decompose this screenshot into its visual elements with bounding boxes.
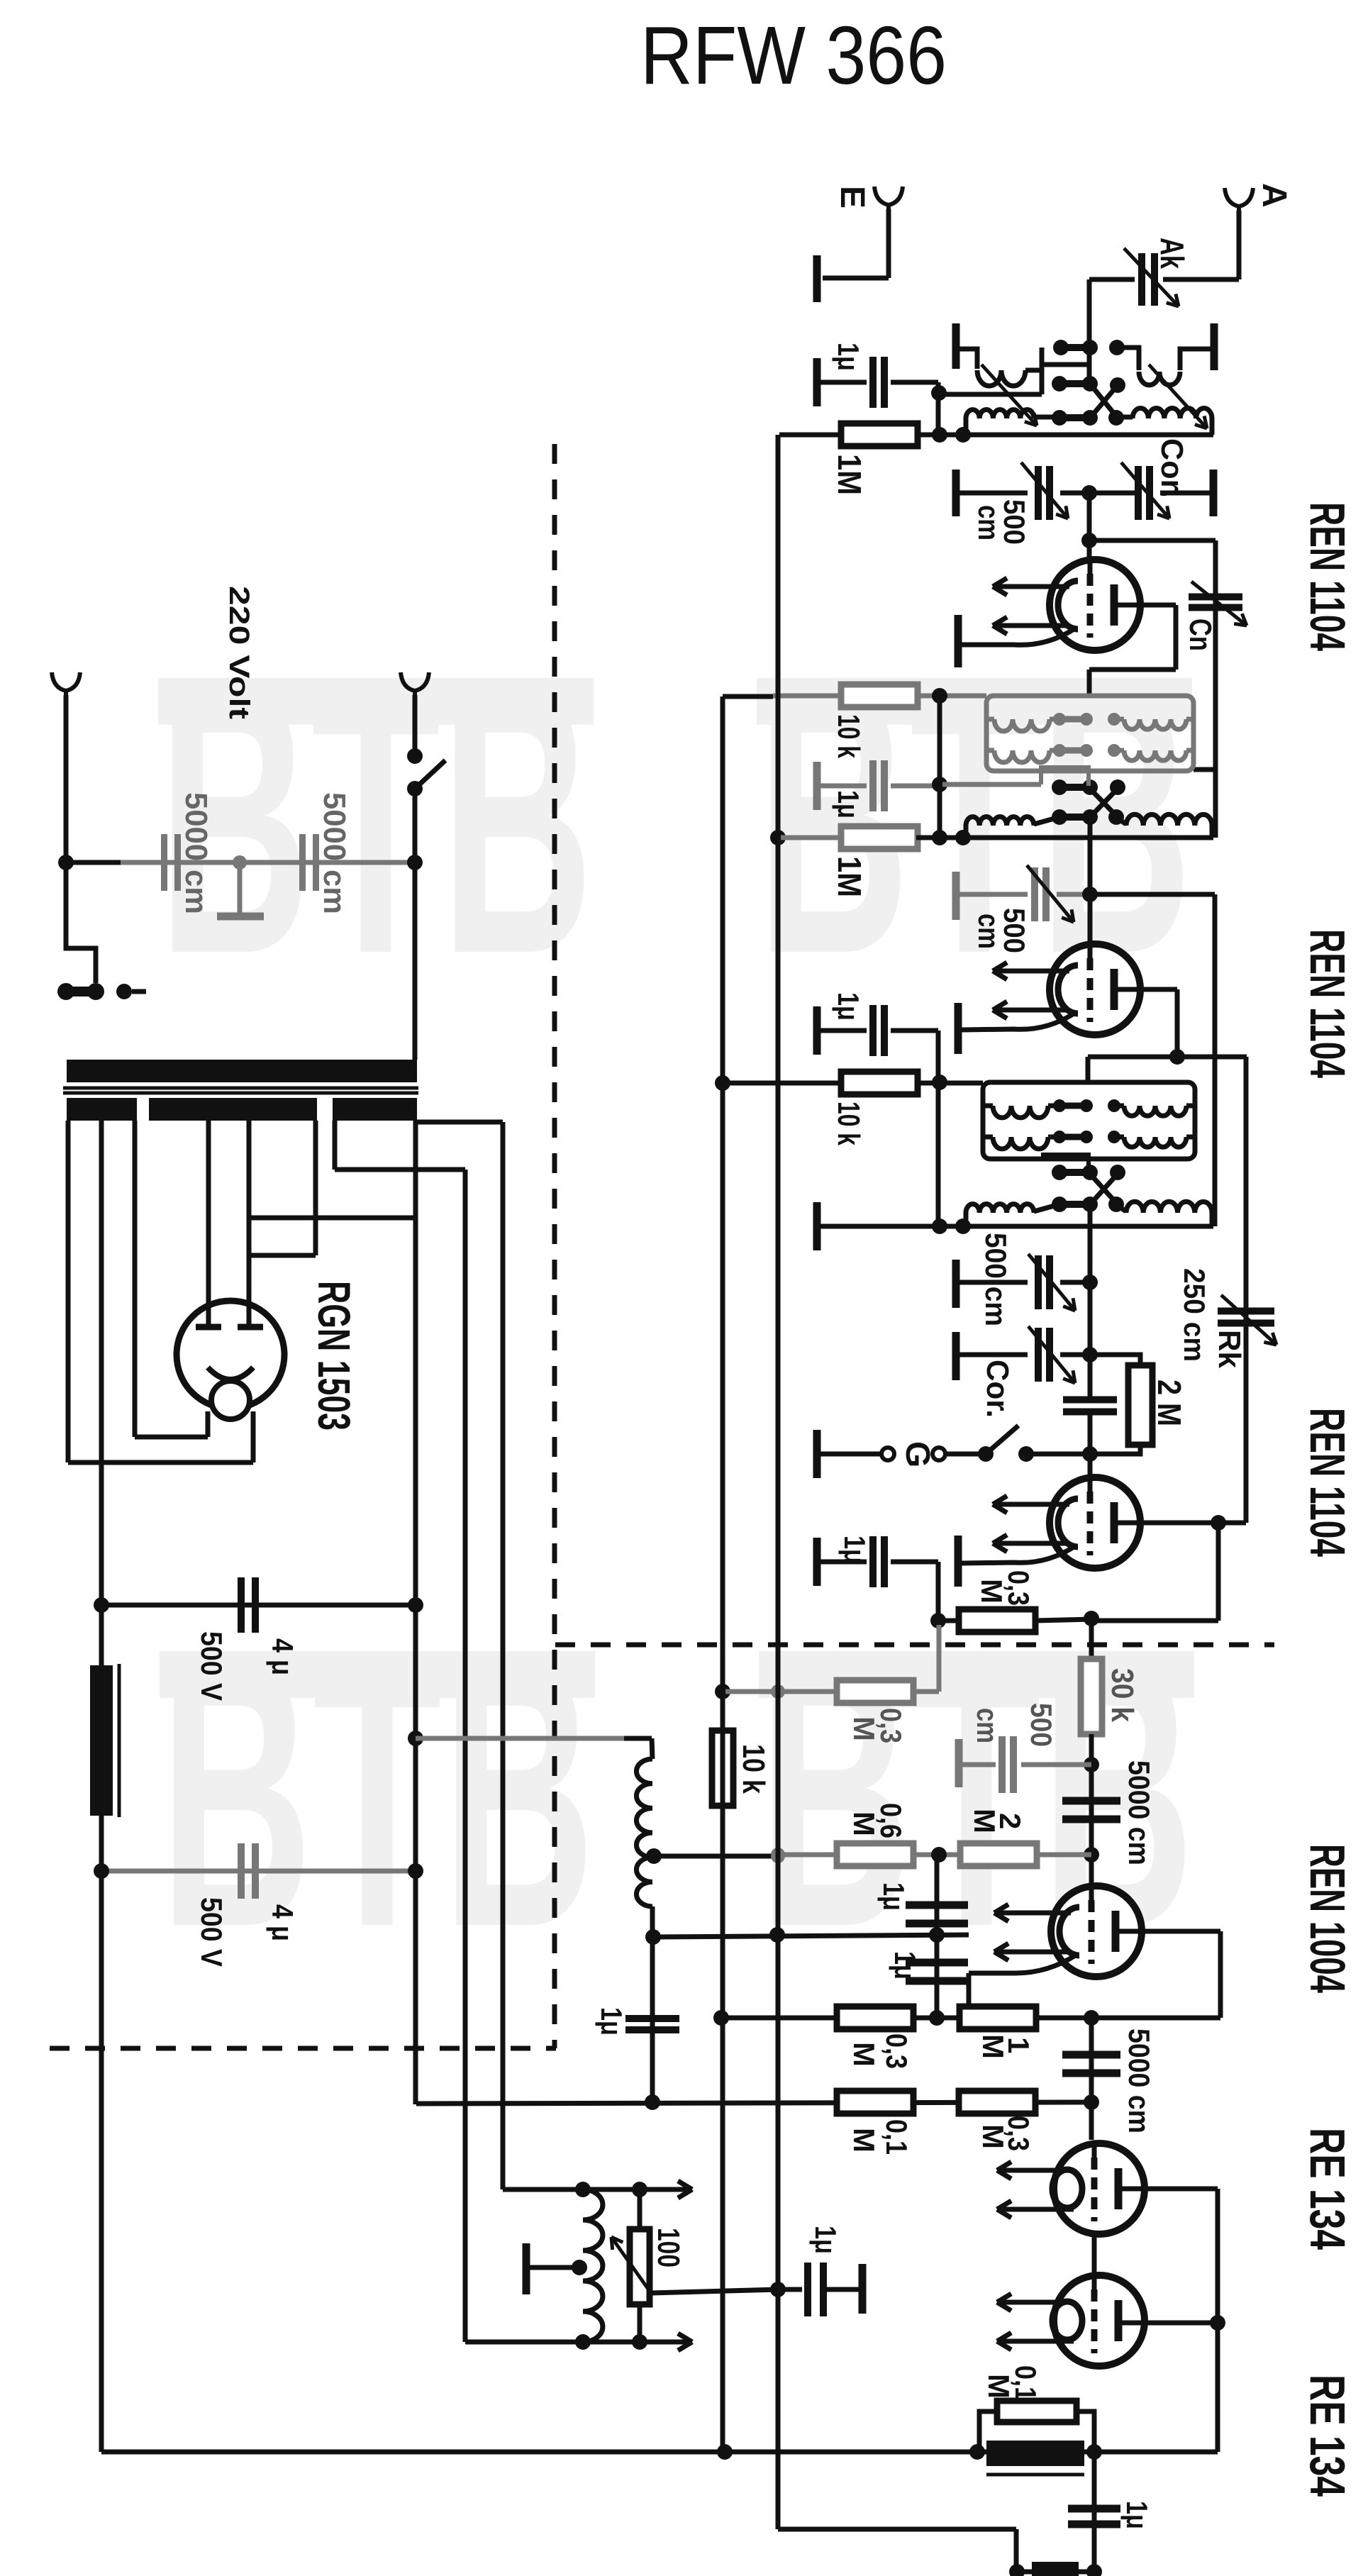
svg-text:1μ: 1μ [809,2226,842,2254]
svg-text:Ak: Ak [1154,238,1191,269]
svg-text:1μ: 1μ [832,343,865,371]
svg-text:1M: 1M [831,856,868,897]
svg-text:1μ: 1μ [877,1882,911,1911]
svg-text:4 μ: 4 μ [266,1638,299,1675]
svg-text:1μ: 1μ [1120,2501,1154,2529]
svg-text:RFW 366: RFW 366 [640,9,947,101]
svg-text:220 Volt: 220 Volt [223,586,255,719]
svg-text:100: 100 [651,2228,686,2267]
svg-text:10 k: 10 k [831,1101,866,1145]
svg-text:cm: cm [971,1708,1004,1743]
svg-text:Cor.: Cor. [980,1360,1015,1418]
svg-text:M: M [847,1716,881,1741]
svg-text:1μ: 1μ [832,992,865,1021]
svg-text:REN 1104: REN 1104 [1300,502,1355,651]
svg-text:E: E [833,186,871,209]
svg-text:5000 cm: 5000 cm [1123,1760,1156,1865]
svg-text:1μ: 1μ [889,1951,922,1980]
svg-text:REN 1104: REN 1104 [1300,1408,1355,1557]
svg-text:M: M [977,2124,1010,2149]
svg-text:RE 134: RE 134 [1300,2375,1355,2497]
svg-text:0,1: 0,1 [880,2119,913,2155]
svg-text:500 V: 500 V [195,1631,228,1701]
svg-text:250 cm: 250 cm [1178,1268,1211,1362]
svg-text:M: M [847,2042,881,2067]
svg-text:RE 134: RE 134 [1300,2128,1355,2250]
svg-text:1μ: 1μ [838,1536,872,1564]
svg-text:5000 cm: 5000 cm [1123,2028,1156,2133]
svg-text:M: M [982,2374,1016,2399]
svg-text:0,3: 0,3 [880,2033,913,2069]
svg-text:cm: cm [972,505,1006,540]
svg-text:500 cm: 500 cm [979,1233,1013,1326]
svg-text:Cn: Cn [1183,618,1218,651]
svg-text:A: A [1255,183,1293,208]
svg-text:M: M [847,1811,881,1836]
svg-text:4 μ: 4 μ [266,1904,299,1941]
svg-text:500: 500 [1025,1703,1058,1747]
svg-text:M: M [977,2034,1010,2059]
svg-text:10 k: 10 k [831,714,866,758]
svg-text:M: M [968,1809,1001,1833]
svg-text:M: M [975,1579,1008,1604]
svg-text:M: M [847,2128,881,2153]
svg-text:1μ: 1μ [832,790,865,818]
svg-text:1μ: 1μ [595,2007,628,2036]
svg-text:Rk: Rk [1212,1330,1247,1369]
svg-text:2 M: 2 M [1151,1379,1188,1426]
svg-text:5000 cm: 5000 cm [317,792,352,914]
svg-text:REN 1104: REN 1104 [1300,929,1355,1078]
svg-text:RGN 1503: RGN 1503 [308,1281,360,1431]
svg-text:30 k: 30 k [1105,1668,1140,1722]
svg-text:REN 1004: REN 1004 [1300,1844,1355,1993]
svg-text:cm: cm [972,914,1006,949]
svg-text:Cor.: Cor. [1155,438,1189,498]
svg-text:5000 cm: 5000 cm [179,792,213,914]
svg-text:500 V: 500 V [195,1897,228,1967]
svg-text:1M: 1M [831,454,868,495]
svg-text:10 k: 10 k [736,1744,771,1794]
